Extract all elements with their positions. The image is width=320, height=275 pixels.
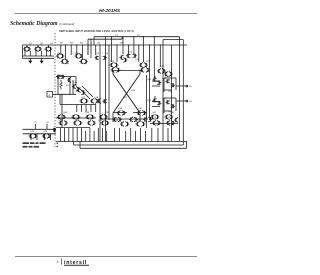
svg-text:Q21: Q21 bbox=[168, 91, 173, 93]
svg-text:R4: R4 bbox=[80, 43, 84, 45]
svg-text:Q9: Q9 bbox=[105, 53, 109, 55]
svg-text:Q32: Q32 bbox=[123, 97, 128, 99]
svg-text:R2: R2 bbox=[60, 43, 64, 45]
svg-text:C2: C2 bbox=[137, 35, 141, 37]
svg-text:Q23: Q23 bbox=[30, 131, 35, 133]
svg-text:Q37: Q37 bbox=[138, 108, 143, 110]
svg-text:Schematic Diagram (Continued): Schematic Diagram (Continued) bbox=[10, 21, 74, 27]
svg-text:D1: D1 bbox=[189, 86, 193, 88]
svg-text:SWITCHING INPUT BUFFER AND LEV: SWITCHING INPUT BUFFER AND LEVEL SHIFTER… bbox=[59, 29, 134, 33]
svg-text:R3: R3 bbox=[70, 43, 74, 45]
svg-text:4: 4 bbox=[56, 260, 58, 264]
svg-text:Q13: Q13 bbox=[146, 61, 151, 63]
svg-text:Q35: Q35 bbox=[147, 100, 152, 102]
svg-text:Q33: Q33 bbox=[131, 90, 136, 92]
svg-text:Q8: Q8 bbox=[96, 53, 100, 55]
svg-text:Q12: Q12 bbox=[110, 61, 115, 63]
svg-text:S1: S1 bbox=[189, 101, 192, 103]
svg-text:C1: C1 bbox=[115, 35, 119, 37]
svg-text:Q4: Q4 bbox=[57, 53, 61, 55]
svg-text:Q25: Q25 bbox=[59, 120, 64, 122]
svg-text:Q14: Q14 bbox=[160, 66, 165, 68]
svg-text:Q5: Q5 bbox=[66, 63, 70, 65]
svg-text:Q29: Q29 bbox=[137, 120, 142, 122]
svg-text:Q10: Q10 bbox=[128, 52, 133, 54]
svg-text:R1: R1 bbox=[66, 85, 70, 87]
svg-text:Q41: Q41 bbox=[152, 112, 157, 114]
svg-text:A: A bbox=[49, 94, 51, 97]
svg-text:Q36: Q36 bbox=[118, 108, 123, 110]
svg-text:Q16: Q16 bbox=[73, 82, 78, 84]
svg-text:Q40: Q40 bbox=[63, 112, 68, 114]
svg-text:Q18: Q18 bbox=[94, 97, 99, 99]
svg-text:V1: V1 bbox=[34, 122, 37, 124]
svg-text:Q7: Q7 bbox=[84, 63, 88, 65]
svg-text:Q38: Q38 bbox=[85, 112, 90, 114]
svg-text:Q8: Q8 bbox=[97, 43, 101, 45]
svg-text:Q34: Q34 bbox=[147, 79, 152, 81]
svg-text:V2: V2 bbox=[46, 122, 49, 124]
svg-text:Q42: Q42 bbox=[170, 112, 175, 114]
svg-text:Q24: Q24 bbox=[43, 131, 48, 133]
